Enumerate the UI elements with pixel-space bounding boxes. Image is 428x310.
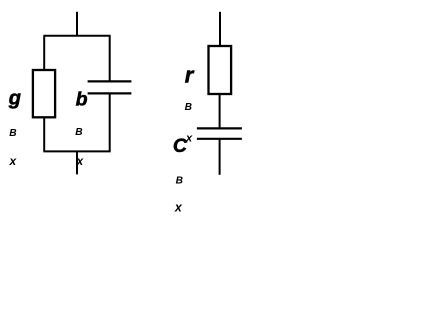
- resistor rB (series branch): [209, 46, 232, 94]
- wire: right branch lower segment: [109, 93, 111, 151]
- wire: top rail of parallel RC network: [43, 35, 110, 37]
- svg-text:B: B: [176, 175, 183, 186]
- svg-text:x: x: [76, 156, 84, 168]
- capacitor bB (right branch): bottom plate: [88, 92, 132, 94]
- svg-text:r: r: [185, 62, 195, 87]
- capacitor Cx (series branch): bottom plate: [197, 138, 242, 140]
- resistor gB (left branch): [33, 70, 55, 117]
- wire: bottom lead of series RC branch: [219, 139, 221, 175]
- svg-text:B: B: [75, 127, 82, 138]
- wire: bottom lead of parallel RC network: [76, 151, 78, 174]
- capacitor bB (right branch): top plate: [88, 80, 132, 82]
- capacitor Cx (series branch): top plate: [197, 127, 242, 129]
- wire: right branch upper segment: [109, 36, 111, 82]
- wire: segment between resistor rB and capacitor Cx: [219, 94, 221, 128]
- wire: bottom rail of parallel RC network: [43, 150, 110, 152]
- svg-text:B: B: [185, 102, 192, 113]
- wire: left branch lower segment: [43, 117, 45, 151]
- wire: left branch upper segment: [43, 36, 45, 71]
- svg-text:g: g: [8, 88, 21, 110]
- svg-text:x: x: [9, 154, 18, 168]
- wire: top lead of parallel RC network: [76, 12, 78, 36]
- svg-text:x: x: [185, 133, 193, 145]
- svg-text:B: B: [9, 128, 16, 139]
- svg-text:b: b: [76, 89, 88, 111]
- wire: top lead of series RC branch: [219, 12, 221, 47]
- svg-text:x: x: [174, 200, 183, 214]
